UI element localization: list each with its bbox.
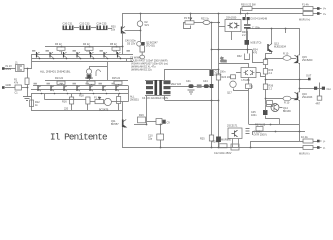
wire x160 drop: [160, 125, 162, 135]
transistor Q13 driver: [268, 44, 272, 52]
speaker cross vertical: [319, 83, 321, 97]
component box y124 link: [138, 117, 146, 123]
svg-text:R16: R16: [62, 101, 67, 104]
svg-text:J1: J1: [15, 62, 18, 65]
terminal V- b: [317, 146, 322, 149]
svg-text:0R22: 0R22: [221, 60, 228, 63]
trimmer P2 top: [185, 21, 194, 24]
svg-text:LT1166: LT1166: [242, 79, 251, 82]
svg-text:2.2: 2.2: [269, 72, 273, 75]
svg-text:F2 4A: F2 4A: [301, 136, 308, 139]
resistor R12 left: [30, 100, 34, 107]
upper bank emitter dots: [39, 58, 122, 60]
svg-text:R 10: R 10: [284, 102, 290, 105]
cap bank left boxes: [146, 81, 153, 94]
oval below U: [140, 55, 145, 59]
svg-text:R19: R19: [139, 114, 144, 117]
lower bank base rail: [31, 89, 128, 91]
speaker terminal left: [314, 87, 317, 90]
lower bank transistors Q4-Q10: [38, 86, 116, 92]
svg-text:47k: 47k: [14, 82, 19, 85]
svg-text:C34 C35: C34 C35: [97, 23, 107, 26]
svg-text:C1: C1: [15, 92, 19, 95]
svg-text:R37 0.22: R37 0.22: [255, 124, 266, 127]
component box on x160 lower: [157, 134, 164, 140]
svg-text:ALL 2N5401 2N5401BL: ALL 2N5401 2N5401BL: [40, 70, 71, 74]
svg-text:(WIMA) MKS2 22u: (WIMA) MKS2 22u: [131, 69, 152, 72]
wire V+ rail ends: [313, 8, 317, 10]
wire top rail: [122, 13, 303, 15]
speaker R below: [317, 96, 322, 100]
wire x218 VAS column: [218, 14, 220, 75]
svg-text:P2 500: P2 500: [184, 17, 193, 20]
svg-text:OUT: OUT: [306, 75, 312, 78]
svg-text:C44: C44: [203, 80, 208, 83]
lower thermal box transistor: [232, 130, 238, 137]
svg-text:GND: GND: [6, 84, 12, 87]
resistor lower VAS x196: [209, 135, 213, 141]
resistor lower bank R3: [114, 81, 122, 84]
lower thermal legs: [233, 139, 239, 148]
svg-text:F1 4A: F1 4A: [302, 4, 309, 7]
U comp on x247: [245, 54, 250, 60]
capacitor near Q14: [263, 110, 268, 115]
resistor fuse V+ upper: [303, 7, 313, 11]
svg-text:2SA1930: 2SA1930: [226, 17, 237, 20]
interbank dark blob: [87, 75, 91, 79]
svg-text:22p: 22p: [148, 138, 153, 141]
svg-text:MUR (V+): MUR (V+): [299, 19, 310, 22]
svg-text:R4 22: R4 22: [83, 43, 90, 46]
svg-text:R30 0.22 5W: R30 0.22 5W: [241, 4, 256, 7]
mid row box 2: [197, 84, 202, 87]
terminal OUT+: [308, 78, 311, 81]
wire y131 line: [252, 131, 305, 133]
svg-text:R32: R32: [237, 55, 242, 58]
wire LT1166 side pins: [236, 72, 241, 74]
LT1166 box: [241, 68, 256, 78]
svg-text:BD139: BD139: [283, 110, 291, 113]
input jack box: [16, 65, 25, 72]
svg-text:R22 1k: R22 1k: [201, 18, 210, 21]
svg-text:R24 100: R24 100: [222, 76, 232, 79]
wire inter-bank x107: [107, 62, 109, 81]
svg-text:MJE (TO): MJE (TO): [251, 42, 262, 45]
wire x252 jog: [253, 50, 264, 63]
component 0.22 on y131: [256, 127, 263, 132]
svg-text:D3 D4 1N4148: D3 D4 1N4148: [251, 18, 268, 21]
lower bank R stubs: [61, 84, 63, 85]
svg-text:(X7R 250V): (X7R 250V): [254, 134, 267, 137]
wire diode branch: [140, 14, 142, 22]
svg-text:R 10: R 10: [283, 53, 289, 56]
svg-text:MUR860: MUR860: [221, 139, 231, 142]
circle Q2: [137, 42, 142, 47]
wire output y79: [266, 79, 309, 81]
upper bank R stubs: [61, 50, 63, 54]
transistor Q16: [295, 92, 300, 102]
transistor Q15: [295, 55, 300, 65]
svg-text:RMS: RMS: [6, 68, 12, 71]
svg-text:100n: 100n: [251, 114, 257, 117]
oval driver lower: [283, 96, 291, 101]
svg-text:R15 22: R15 22: [112, 77, 121, 80]
resistor lower bank R2: [87, 81, 95, 84]
svg-text:C3..C6 4x1000uF 100V: C3..C6 4x1000uF 100V: [142, 97, 168, 100]
bead R22: [203, 21, 210, 25]
svg-text:V+: V+: [323, 13, 327, 16]
svg-text:V-: V-: [323, 147, 326, 150]
svg-text:C30 C31: C30 C31: [63, 23, 73, 26]
driver emitter box upper: [263, 60, 267, 65]
wire x122 bottom vertical: [122, 102, 124, 148]
trimmer arrows: [98, 18, 192, 100]
svg-text:V+: V+: [323, 8, 327, 11]
wire y121 to C9: [147, 121, 157, 123]
upper bank tiny labels: [32, 50, 130, 52]
dark comp x211 y70: [209, 70, 213, 76]
svg-text:V-: V-: [323, 141, 326, 144]
wire input+ vertical: [5, 68, 16, 70]
input jack inner: [17, 66, 22, 70]
wire thermal box legs: [231, 32, 233, 41]
wire big box: [165, 70, 219, 81]
wire pot row: [194, 22, 203, 24]
chain group A: [63, 26, 74, 31]
upper bank side verticals: [31, 54, 33, 61]
ground mid row: [188, 90, 195, 94]
resistor input bias: [25, 78, 29, 85]
svg-text:2SC5171: 2SC5171: [227, 125, 238, 128]
speaker terminal right: [322, 87, 325, 90]
svg-text:Q17: Q17: [227, 92, 232, 95]
wire left vertical to Q1: [122, 14, 124, 28]
svg-text:220: 220: [64, 108, 69, 111]
lower bank tiny labels: [34, 83, 115, 85]
wire second V+ rail: [241, 9, 243, 14]
thermal box top transistors: [228, 23, 240, 29]
upper bank bus2: [31, 61, 133, 63]
lower bank dots: [41, 93, 121, 95]
svg-text:R26 10: R26 10: [212, 141, 221, 144]
svg-text:P1 2k: P1 2k: [94, 97, 101, 100]
wire pot rheostat loop: [184, 23, 191, 29]
circle zener D2: [137, 21, 143, 27]
capacitor x247 stack: [244, 25, 251, 28]
svg-text:470: 470: [253, 52, 258, 55]
lower bank bottom loop: [32, 94, 123, 111]
wire y28 collector line: [247, 28, 299, 30]
mid row blob 1: [189, 84, 194, 88]
upper bank base rail: [31, 54, 133, 56]
wire Q17 to pin: [234, 89, 249, 91]
svg-text:C9: C9: [167, 122, 171, 125]
wire pot drop: [190, 14, 192, 21]
dark square beside C9: [163, 120, 166, 124]
wire inter-bank x89: [89, 66, 91, 69]
wire Q13 emitter: [266, 52, 272, 54]
svg-text:9V1: 9V1: [145, 24, 150, 27]
upper bank bus1: [31, 58, 133, 60]
chain group C: [97, 26, 108, 31]
resistor lower bank tail2: [117, 97, 121, 104]
svg-text:Out: Out: [327, 88, 331, 91]
capacitor input coupling: [15, 85, 22, 90]
wire cap bank frame: [145, 80, 171, 82]
terminal V- a: [317, 140, 322, 143]
resistor fuse V- upper: [303, 139, 313, 143]
svg-text:R18: R18: [79, 95, 84, 98]
wire tail stubs: [71, 94, 73, 98]
wire out lower y88.5: [299, 88, 314, 90]
wire thermal box stub: [219, 26, 226, 28]
terminal V+ b: [317, 12, 322, 15]
wire mid comp row: [171, 86, 212, 88]
stub x285: [285, 29, 287, 34]
wire y66 link: [89, 66, 107, 68]
dark blob x211 y84: [210, 84, 214, 88]
wire x265 driver column: [265, 53, 267, 60]
circle Q trimmer cluster: [104, 98, 111, 105]
resistor upper bank R1: [57, 47, 65, 50]
svg-text:R14 22: R14 22: [85, 77, 94, 80]
transistor Q1: [122, 27, 126, 34]
capacitor y131 left: [246, 129, 250, 134]
upper bank top rail: [45, 46, 123, 48]
wire bottom rail: [122, 147, 303, 149]
svg-text:2.2: 2.2: [269, 88, 273, 91]
resistor lower bank R1: [57, 81, 65, 84]
resistor on bottom rail: [219, 144, 227, 148]
box above Q17: [231, 75, 236, 79]
wire second V- rail: [251, 142, 304, 148]
wire V- rail ends: [313, 141, 317, 143]
svg-text:750: 750: [249, 86, 254, 89]
dark square beside Q2: [141, 42, 144, 46]
interbank zener circle: [86, 69, 91, 74]
dark comp x246 lower: [245, 40, 250, 45]
svg-text:10k: 10k: [111, 29, 116, 32]
transistor Q bottom left: [123, 120, 127, 128]
resistor driver upper: [263, 69, 267, 75]
resistor upper bank R2: [85, 47, 93, 50]
wire y124.5 bottom link: [134, 124, 147, 126]
lower thermal box: [228, 128, 242, 139]
component box bottom mid: [231, 144, 239, 150]
wire trimmer row: [90, 101, 95, 103]
svg-text:R3 22: R3 22: [55, 43, 62, 46]
resistor R on VAS x218: [216, 74, 220, 80]
svg-text:4R7: 4R7: [316, 103, 321, 106]
wire x247 column: [245, 14, 247, 18]
wire Q1 collector to branch: [125, 30, 141, 32]
svg-text:BC547B: BC547B: [99, 109, 109, 112]
svg-text:(C0G): (C0G): [215, 74, 222, 77]
wire LT1166 bottom pin: [248, 78, 250, 85]
resistor lower bank tail1: [70, 97, 74, 104]
svg-text:D5 15V: D5 15V: [127, 43, 136, 46]
transistor Q14 driver: [271, 104, 279, 112]
wire y49 link: [212, 49, 253, 51]
capacitor C9 box: [156, 119, 162, 125]
mid row blob 3: [204, 84, 209, 88]
svg-text:2N5551: 2N5551: [130, 99, 139, 102]
lower bank top rail: [45, 80, 128, 82]
wire x299 output column: [299, 28, 301, 55]
lower bank bus: [31, 93, 128, 95]
svg-text:C12 100n 250V: C12 100n 250V: [214, 152, 232, 155]
vas dark comp x218 lower: [216, 137, 221, 143]
upper bank transistors Q3-Q9: [37, 52, 118, 58]
wire Q14 links: [266, 105, 283, 125]
wire x211 VAS column: [211, 23, 213, 136]
oval driver upper: [283, 56, 291, 61]
terminal IN-: [2, 86, 5, 89]
terminal V+ a: [317, 7, 322, 10]
circle Q17: [230, 81, 236, 87]
wire input-: [5, 87, 15, 89]
resistor fuse V+ lower: [303, 12, 313, 16]
svg-text:R5 22: R5 22: [110, 43, 117, 46]
terminal IN+: [2, 67, 5, 70]
svg-text:(TO-92): (TO-92): [146, 44, 155, 47]
wire x146 drop: [146, 95, 148, 125]
svg-text:C32 C33: C32 C33: [80, 23, 90, 26]
lower bank second rail: [33, 85, 128, 87]
vertical R near trimmer: [86, 97, 90, 104]
wire Q13 collector: [271, 29, 273, 44]
svg-text:Il Penitente: Il Penitente: [50, 132, 107, 143]
svg-text:2N2/ 1k5: 2N2/ 1k5: [171, 83, 182, 86]
wire y124 link: [249, 124, 300, 126]
svg-text:R25: R25: [200, 138, 205, 141]
box above Q14: [267, 101, 273, 107]
box below LT pin: [246, 84, 252, 89]
svg-text:2.2: 2.2: [242, 34, 246, 37]
resistor R30 0.22 top: [242, 7, 252, 11]
resistor driver lower: [263, 84, 267, 90]
resistor fuse V- lower: [303, 146, 313, 150]
svg-text:C 100n: C 100n: [252, 27, 261, 30]
LT1166 inner marks: [244, 70, 255, 75]
wire LT1166 top pin: [219, 64, 249, 68]
ground input: [23, 97, 31, 101]
wire chain segments: [74, 27, 79, 29]
wire upper base y58: [266, 58, 284, 60]
svg-text:C41: C41: [186, 80, 191, 83]
svg-text:MJE15034: MJE15034: [274, 46, 287, 49]
cap bank right boxes: [164, 81, 171, 94]
cap bank electrolytic bars: [155, 80, 158, 95]
svg-text:1k: 1k: [35, 104, 38, 107]
chain group B: [80, 26, 91, 31]
svg-text:BC557: BC557: [111, 123, 119, 126]
wire lower base y98.5: [266, 98, 284, 100]
svg-text:MUR (V-): MUR (V-): [299, 153, 310, 156]
thermal box top: [225, 20, 241, 32]
diode pair right of thermal box: [243, 17, 246, 20]
svg-text:2SC5200: 2SC5200: [302, 59, 313, 62]
svg-text:R13 22: R13 22: [55, 77, 64, 80]
wire input to upper bank: [28, 62, 32, 69]
wire Q1 emitter down: [122, 33, 124, 55]
svg-text:2SA1943: 2SA1943: [302, 96, 313, 99]
trimmer P1: [95, 100, 104, 104]
interbank curl: [96, 70, 100, 76]
